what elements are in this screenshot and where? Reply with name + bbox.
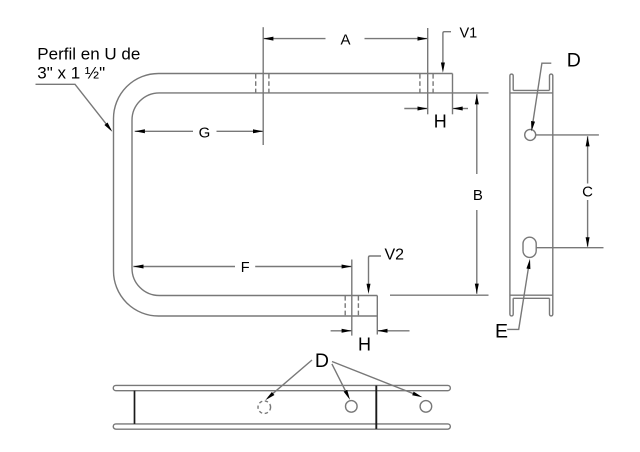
dimension A line [263, 38, 325, 40]
slot E side view [523, 237, 536, 257]
svg-text:V1: V1 [460, 26, 478, 42]
bottom view top flange strip [113, 385, 450, 390]
bottom view bend line 1 [134, 391, 136, 424]
arrowheads dimension H bottom [342, 329, 352, 333]
leader Perfil text [36, 84, 111, 130]
svg-text:3" x 1 ½": 3" x 1 ½" [37, 64, 105, 83]
side view left wall with lips [510, 74, 513, 316]
svg-text:E: E [495, 320, 508, 342]
bottom arm end cap [376, 296, 378, 335]
svg-text:F: F [241, 260, 250, 276]
dimension G line [135, 130, 193, 132]
leader D bottom 2 [332, 364, 347, 394]
arrowheads dimension H top [418, 107, 428, 111]
dimension H top lines [404, 108, 427, 110]
extension hole D [536, 134, 599, 136]
leader D top [533, 63, 551, 121]
side view inner bottom line [513, 297, 549, 299]
hidden hole lines top arm left [256, 74, 269, 93]
extension line A left / G right [262, 27, 264, 145]
arrowhead leader D bottom 3 [412, 392, 423, 399]
svg-text:A: A [340, 32, 350, 49]
side view inner top line [513, 89, 549, 91]
arrowhead leader E [526, 258, 532, 269]
svg-text:B: B [473, 187, 483, 204]
dimension F line [133, 266, 235, 268]
arrowheads dimension B [475, 94, 479, 104]
extension line F right / H bottom [351, 260, 353, 336]
side view right wall with lips [550, 74, 553, 316]
arrowheads dimension G [135, 129, 145, 133]
dimension C line [587, 136, 589, 183]
side view full bottom line [510, 294, 553, 296]
extension of top arm bottom edge (B top) [453, 92, 489, 94]
hidden hole lines top arm right [420, 74, 433, 93]
dimension B line [476, 94, 478, 174]
arrowhead leader V2 [367, 284, 371, 294]
bottom view seam line 2 [375, 386, 377, 429]
svg-text:V2: V2 [385, 247, 405, 264]
bottom view bottom flange strip [113, 424, 450, 429]
side view full top line [510, 92, 553, 94]
arrowheads dimension C [586, 136, 590, 146]
top arm end cap [452, 74, 454, 115]
hole D side view [525, 129, 536, 140]
arrowheads dimension A [263, 37, 273, 41]
bottom view hole 2 [420, 401, 432, 413]
svg-text:Perfil en U de: Perfil en U de [37, 44, 140, 63]
arrowhead leader V1 [441, 62, 445, 72]
svg-text:D: D [567, 50, 581, 72]
U-frame outer contour [114, 74, 453, 317]
arrowhead leader Perfil [104, 123, 113, 133]
leader D bottom 3 [332, 362, 416, 395]
leader V2 [369, 256, 382, 285]
svg-text:C: C [582, 184, 593, 201]
bottom view hidden hole [258, 401, 271, 414]
extension line B bottom [390, 294, 489, 296]
hidden hole lines bottom arm [345, 296, 358, 316]
svg-text:H: H [434, 111, 447, 131]
svg-text:D: D [315, 350, 329, 372]
leader D bottom 1 [268, 360, 312, 398]
leader E [507, 267, 528, 330]
arrowheads dimension F [133, 265, 143, 269]
svg-text:G: G [199, 125, 211, 142]
U-frame inner contour [132, 93, 453, 296]
leader V1 [443, 32, 451, 64]
arrowhead leader D top [530, 121, 535, 132]
arrowhead leader D bottom 2 [344, 390, 352, 401]
svg-text:H: H [358, 335, 371, 355]
dimension H bottom lines [331, 330, 352, 332]
arrowhead leader D bottom 1 [264, 392, 274, 402]
extension line A right / H left [427, 28, 429, 114]
extension slot E [536, 247, 603, 249]
bottom view hole 1 [346, 401, 358, 413]
